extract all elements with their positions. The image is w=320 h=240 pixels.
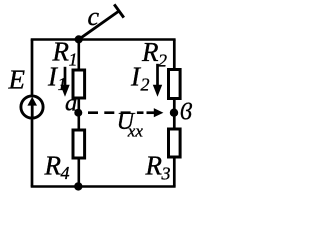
node a <box>74 109 82 117</box>
svg-text:3: 3 <box>161 164 171 184</box>
arrow toward b <box>147 111 157 114</box>
resistor R4 <box>73 130 85 158</box>
source E <box>21 96 43 118</box>
svg-text:R: R <box>141 37 159 67</box>
wire right side <box>173 40 176 187</box>
switch c tick <box>114 4 124 17</box>
node b <box>170 109 178 117</box>
svg-text:xx: xx <box>127 121 144 140</box>
svg-text:4: 4 <box>61 163 70 183</box>
current arrow I2 <box>156 64 159 89</box>
svg-text:2: 2 <box>141 75 150 95</box>
node top junction <box>75 35 83 43</box>
current arrow I1 <box>64 67 67 89</box>
wire top <box>31 38 176 41</box>
dashed line Uxx <box>88 111 144 114</box>
wire middle branch <box>78 40 81 187</box>
resistor R3 <box>169 129 181 157</box>
wire left side <box>31 40 34 187</box>
svg-text:1: 1 <box>69 50 78 70</box>
svg-text:E: E <box>8 65 26 95</box>
svg-text:a: a <box>65 89 77 116</box>
svg-text:R: R <box>44 151 62 181</box>
svg-text:c: c <box>88 2 100 31</box>
svg-text:ϐ: ϐ <box>180 99 192 125</box>
svg-text:2: 2 <box>158 51 167 71</box>
svg-text:R: R <box>145 151 163 181</box>
wire bottom <box>31 185 176 188</box>
resistor R1 <box>73 70 85 98</box>
node bottom junction <box>74 182 82 190</box>
resistor R2 <box>169 70 181 99</box>
switch c blade <box>79 11 119 39</box>
